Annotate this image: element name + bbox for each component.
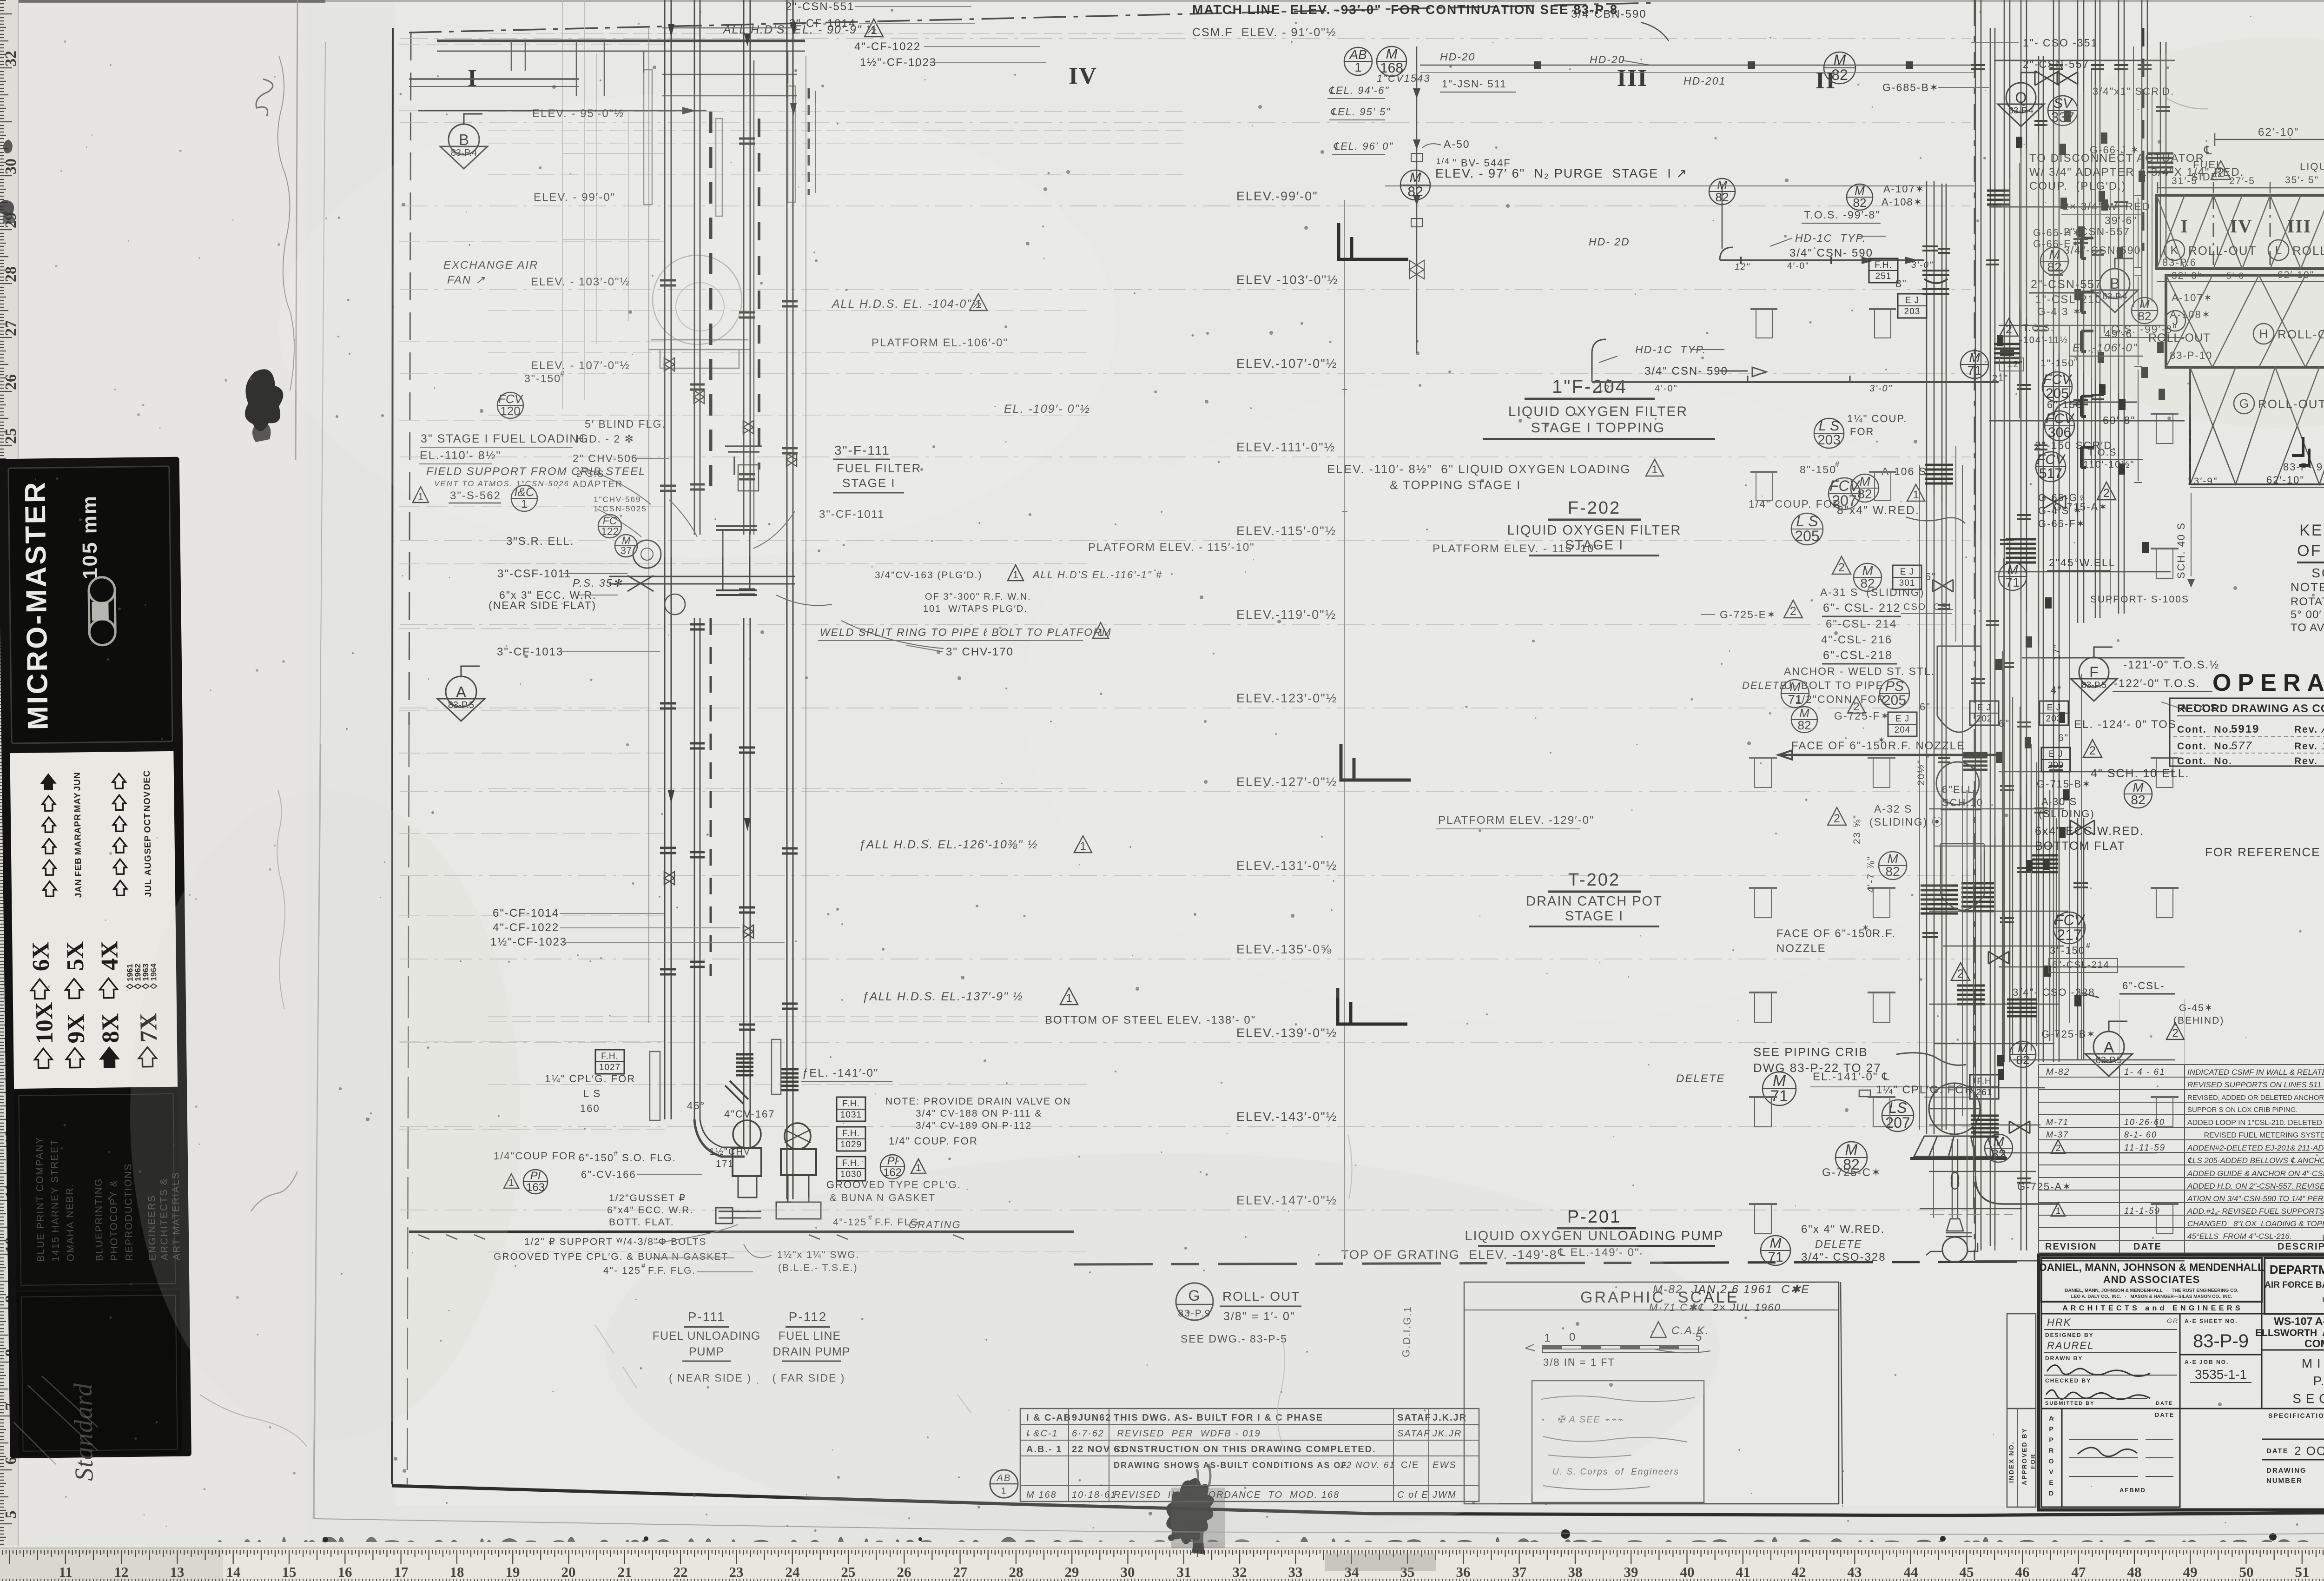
platform bar at 735 — [648, 340, 751, 368]
svg-text:M: M — [1834, 52, 1846, 68]
ej-209 box — [2041, 748, 2070, 772]
svg-text:FOR: FOR — [2029, 1454, 2036, 1469]
svg-text:NOTE:: NOTE: — [2291, 580, 2324, 594]
svg-text:82: 82 — [1716, 190, 1729, 204]
drain catch pot vessel — [1929, 1083, 1980, 1134]
svg-text:ADDED GUIDE & ANCHOR ON 4″-CSL: ADDED GUIDE & ANCHOR ON 4″-CSL-216. ADDE… — [2187, 1169, 2324, 1178]
pipe 1.5"-CF-1023 — [787, 0, 793, 1199]
q ref flag — [2006, 83, 2036, 112]
L roll-out label — [2268, 240, 2289, 260]
svg-text:3/4" CV-189 ON P-112: 3/4" CV-189 ON P-112 — [916, 1120, 1032, 1131]
svg-text:G-685-B✶: G-685-B✶ — [1882, 81, 1939, 93]
m82 ej301 — [1854, 563, 1882, 591]
svg-text:M I S S I L E S I L O: M I S S I L E S I L O — [2302, 1356, 2324, 1370]
K roll-out label — [2164, 240, 2185, 260]
svg-text:2: 2 — [2172, 1027, 2178, 1039]
svg-text:1½"CHV: 1½"CHV — [709, 1147, 751, 1157]
m82 f — [1851, 474, 1879, 502]
svg-text:G-715-B✶: G-715-B✶ — [2037, 778, 2092, 790]
svg-text:1"- CSO -351: 1"- CSO -351 — [2023, 37, 2098, 49]
left dim ticks — [2134, 195, 2142, 483]
svg-text:1: 1 — [2056, 1206, 2061, 1216]
svg-text:E: E — [2049, 1479, 2054, 1486]
svg-text:REVISED SUPPORTS ON LINES 511: REVISED SUPPORTS ON LINES 511 & 590 — [2187, 1080, 2324, 1089]
lower cluster extra density — [1967, 790, 1967, 1250]
svg-text:F.H.: F.H. — [1875, 260, 1892, 270]
svg-text:#: # — [2086, 942, 2091, 950]
fcv 217 circle — [2053, 912, 2085, 944]
45 deg elbow marks — [725, 1081, 748, 1104]
svg-text:30: 30 — [1121, 1564, 1135, 1580]
chart band J H — [2166, 275, 2324, 367]
aux elevation line 104 — [488, 310, 1092, 311]
ej-205 box — [1898, 294, 1927, 318]
svg-text:1415 HARNEY STREET: 1415 HARNEY STREET — [49, 1139, 61, 1262]
svg-text:39: 39 — [1624, 1564, 1638, 1580]
m82 g725f — [1791, 707, 1817, 733]
tri 2 h — [2083, 740, 2102, 757]
svg-text:BOTTOM FLAT: BOTTOM FLAT — [2035, 840, 2126, 853]
svg-text:163: 163 — [526, 1181, 545, 1194]
svg-text:-121′-0" T.O.S.½: -121′-0" T.O.S.½ — [2123, 659, 2219, 671]
elevation line 139 ft — [400, 1042, 1971, 1043]
svg-text:33: 33 — [1288, 1564, 1303, 1580]
tri 2 c — [1848, 696, 1865, 713]
torn film edge band — [296, 0, 297, 460]
svg-text:13: 13 — [170, 1564, 185, 1580]
svg-text:BOTT. FLAT.: BOTT. FLAT. — [609, 1217, 674, 1228]
ej 202 box — [1970, 701, 1999, 725]
project title cell — [2262, 1314, 2324, 1350]
svg-text:DATE: DATE — [2133, 1242, 2162, 1252]
svg-text:9X: 9X — [63, 1014, 90, 1044]
svg-text:15: 15 — [282, 1564, 297, 1580]
svg-text:HD- 2D: HD- 2D — [1589, 236, 1630, 248]
svg-text:REVISION: REVISION — [2045, 1242, 2097, 1252]
ps 205 circle — [1880, 679, 1909, 708]
svg-text:1"-JSN- 511: 1"-JSN- 511 — [1442, 78, 1506, 90]
drawn signature scribble — [2047, 1365, 2150, 1376]
svg-text:4"-CF-1022: 4"-CF-1022 — [493, 921, 559, 934]
svg-text:26: 26 — [2, 374, 20, 390]
svg-text:(SLIDING): (SLIDING) — [2039, 808, 2095, 820]
bottom run to silo wall — [1592, 381, 1999, 383]
svg-text:8-1- 60: 8-1- 60 — [2124, 1130, 2157, 1139]
svg-text:REPRODUCTIONS: REPRODUCTIONS — [123, 1163, 135, 1261]
equipment centerline ticks — [1342, 390, 1347, 511]
svg-text:5X: 5X — [62, 941, 89, 971]
svg-text:25: 25 — [2, 428, 20, 444]
svg-text:Rev.: Rev. — [2294, 741, 2318, 752]
svg-text:REVISED FUEL METERING SYSTEM.: REVISED FUEL METERING SYSTEM. — [2187, 1131, 2324, 1139]
pipe 4"-CF-1022 — [744, 0, 750, 535]
svg-text:82: 82 — [1853, 196, 1867, 210]
m82 circle — [1879, 852, 1907, 880]
svg-text:AUG: AUG — [143, 854, 153, 875]
svg-text:23: 23 — [729, 1564, 744, 1580]
svg-text:OF ROLL- OUTS: OF ROLL- OUTS — [2297, 542, 2324, 560]
svg-text:LS: LS — [1888, 1099, 1907, 1116]
valve bodies right cluster — [2035, 71, 2059, 85]
platform nozzle symbol — [1868, 887, 1895, 889]
I&C circle — [511, 485, 537, 511]
svg-text:SCALE - NONE: SCALE - NONE — [2311, 566, 2324, 580]
fh 261 box — [1970, 1075, 1999, 1099]
svg-text:SUBMITTED BY: SUBMITTED BY — [2045, 1401, 2095, 1406]
svg-text:DATE: DATE — [2156, 1401, 2173, 1406]
svg-text:2"-CSN-557: 2"-CSN-557 — [2023, 58, 2089, 70]
svg-text:44: 44 — [1904, 1564, 1918, 1580]
svg-text:PI: PI — [887, 1155, 898, 1167]
svg-text:8": 8" — [1895, 278, 1907, 290]
revision table — [2039, 1064, 2324, 1065]
svg-text:32: 32 — [1233, 1564, 1247, 1580]
svg-text:29: 29 — [1065, 1564, 1079, 1580]
svg-text:OCT: OCT — [143, 813, 153, 833]
svg-text:1027: 1027 — [599, 1063, 621, 1072]
vessel with dome top — [1937, 646, 1981, 732]
svg-text:8X: 8X — [97, 1013, 124, 1043]
platform nozzle symbol — [1749, 1203, 1777, 1205]
tri 2 top — [2211, 161, 2231, 179]
svg-text:DATE: DATE — [2155, 1411, 2174, 1418]
svg-text:1030: 1030 — [840, 1170, 862, 1179]
chart top dimension 62-10 — [2215, 139, 2324, 140]
svg-text:Aᵣ30 S: Aᵣ30 S — [2041, 796, 2077, 807]
svg-text:3/4" CV-188 ON P-111 &: 3/4" CV-188 ON P-111 & — [916, 1108, 1042, 1119]
ej 204 box — [1888, 712, 1917, 736]
svg-text:1: 1 — [1013, 569, 1018, 581]
svg-text:83-P.5: 83-P.5 — [448, 700, 474, 710]
elevation line 143 ft — [400, 1126, 1971, 1127]
tri 2 g — [2000, 318, 2018, 336]
elevation line 91 ft — [400, 38, 1971, 39]
MICRO-MASTER film test strip — [0, 457, 191, 1482]
dashed hanger right — [808, 88, 810, 195]
left match line vertical dashed — [409, 33, 411, 725]
svg-text:SUPPORT- S-100S: SUPPORT- S-100S — [2090, 594, 2189, 605]
svg-text:FOR REFERENCE DWG′S SEE DWG. 8: FOR REFERENCE DWG′S SEE DWG. 83- P-1 — [2205, 845, 2324, 859]
m82 top circle — [1824, 52, 1855, 84]
platform nozzle symbol — [2151, 887, 2179, 889]
blueprint company panel — [14, 1089, 180, 1290]
svg-text:82: 82 — [1407, 184, 1423, 199]
m82 low — [1985, 1134, 2013, 1162]
elbow runs top right — [2053, 402, 2137, 421]
svg-text:1: 1 — [916, 1163, 921, 1173]
aux elevation line 149 — [488, 1251, 1092, 1252]
elevation line 95 ft — [400, 122, 1971, 123]
svg-text:37: 37 — [1512, 1564, 1527, 1580]
svg-text:M: M — [1770, 1236, 1782, 1251]
sv 337 circle — [2048, 96, 2078, 126]
pipe flanges — [660, 139, 798, 1030]
svg-text:6X: 6X — [27, 941, 54, 971]
svg-text:MATCH LINE ELEV. -93′-0" FOR: MATCH LINE ELEV. -93′-0" FOR CONTINUATIO… — [1192, 2, 1618, 17]
svg-text:E J: E J — [2047, 703, 2061, 713]
svg-text:50: 50 — [2239, 1564, 2254, 1580]
svg-text:E J: E J — [2049, 749, 2063, 759]
svg-text:HRK: HRK — [2047, 1316, 2071, 1328]
svg-text:1/4" COUP. FOR: 1/4" COUP. FOR — [889, 1135, 978, 1147]
svg-text:℄EL. 95′ 5": ℄EL. 95′ 5" — [1330, 106, 1391, 118]
svg-text:3′-0": 3′-0" — [1911, 260, 1934, 270]
svg-text:82: 82 — [2016, 1053, 2030, 1067]
hds116 note — [1008, 565, 1023, 581]
left cells outline above approved zone — [2007, 1314, 2036, 1409]
fcv-517 circle — [2036, 452, 2066, 482]
svg-text:203: 203 — [1904, 307, 1921, 317]
svg-text:3/4"CBN-590: 3/4"CBN-590 — [1571, 8, 1647, 20]
elevation line 99 ft — [400, 205, 1971, 206]
platform nozzle symbol — [1868, 992, 1895, 993]
svg-text:2 OCT 1959: 2 OCT 1959 — [2294, 1444, 2324, 1458]
svg-text:6"-CSL-: 6"-CSL- — [2122, 980, 2165, 992]
svg-text:F.H.: F.H. — [842, 1158, 860, 1168]
approved column — [2041, 1409, 2062, 1507]
pipe 1"-CSL-210 — [2004, 0, 2010, 1062]
tri 2 a — [1832, 556, 1851, 574]
svg-text:577: 577 — [2231, 740, 2252, 752]
fcv 207 circle — [1829, 478, 1860, 509]
svg-text:A-107✶: A-107✶ — [1883, 183, 1925, 195]
signature cells — [2041, 1314, 2180, 1409]
svg-text:17": 17" — [2052, 644, 2062, 660]
support channels lower — [650, 1039, 781, 1120]
svg-text:1031: 1031 — [840, 1110, 862, 1120]
svg-text:21: 21 — [618, 1564, 632, 1580]
fcv-205 circle — [2042, 372, 2072, 402]
svg-text:℄EL. 96′ 0": ℄EL. 96′ 0" — [1333, 140, 1393, 152]
svg-text:6x4" ECC.W.RED.: 6x4" ECC.W.RED. — [2035, 825, 2144, 838]
svg-text:83-P.5: 83-P.5 — [2096, 1055, 2122, 1065]
svg-text:AND ASSOCIATES: AND ASSOCIATES — [2103, 1274, 2200, 1285]
svg-text:P. L S. P I P I N G: P. L S. P I P I N G — [2313, 1374, 2324, 1388]
tri 2 d — [1828, 807, 1846, 825]
L corner mark in band G — [2292, 437, 2309, 465]
elevation line 135 ft — [400, 959, 1971, 959]
svg-text:217: 217 — [2057, 926, 2081, 943]
aux elevation line 90.75 — [488, 33, 1185, 34]
hook marks left of chart — [2081, 238, 2093, 258]
svg-text:MAY: MAY — [73, 792, 83, 813]
svg-text:3/4"CV-163 (PLG′D.): 3/4"CV-163 (PLG′D.) — [875, 570, 982, 581]
svg-text:2: 2 — [2006, 323, 2012, 336]
pipe 6"-CSO-333 — [1990, 28, 1995, 1246]
vertical lines continuation above table — [2038, 999, 2039, 1065]
svg-text:RECORD DRAWING AS CONSTRUCTED: RECORD DRAWING AS CONSTRUCTED — [2177, 702, 2324, 715]
pump suction drop — [1952, 1139, 1958, 1218]
svg-text:3/4" CSN- 590: 3/4" CSN- 590 — [1644, 365, 1728, 377]
svg-text:℄EL. 94′-6": ℄EL. 94′-6" — [1328, 85, 1389, 96]
svg-text:M: M — [1845, 1141, 1858, 1158]
platform nozzle symbol — [1749, 992, 1777, 993]
m82 top far left — [1709, 179, 1735, 205]
svg-text:5: 5 — [2, 1511, 20, 1519]
svg-text:CSM.F ELEV. - 91′-0"½: CSM.F ELEV. - 91′-0"½ — [1192, 26, 1337, 39]
svg-text:3" CHV-170: 3" CHV-170 — [946, 646, 1014, 658]
svg-text:6"-150: 6"-150 — [2047, 399, 2082, 410]
svg-text:3′-0": 3′-0" — [1869, 384, 1893, 394]
svg-text:45: 45 — [1960, 1564, 1974, 1580]
svg-text:FCV: FCV — [2054, 912, 2086, 928]
svg-text:M: M — [1410, 170, 1421, 185]
svg-text:NOTE: PROVIDE DRAIN VALVE ON: NOTE: PROVIDE DRAIN VALVE ON — [885, 1096, 1071, 1107]
svg-text:306: 306 — [2048, 425, 2071, 440]
elevation line 115 ft — [400, 540, 1971, 541]
svg-text:3"-150: 3"-150 — [2050, 945, 2085, 956]
top manifold drops — [511, 41, 788, 96]
record drawing box — [2170, 698, 2324, 766]
platform nozzle symbol — [1749, 1096, 1777, 1098]
svg-text:EL.-141′-0" ℄: EL.-141′-0" ℄ — [1813, 1071, 1890, 1083]
svg-text:60′-8": 60′-8" — [2103, 414, 2136, 426]
svg-text:KEY ELEVATION: KEY ELEVATION — [2299, 522, 2324, 539]
pipe 2"-CSN-557 — [2039, 56, 2043, 1062]
svg-text:Rev.: Rev. — [2294, 724, 2318, 735]
pump leader lines — [651, 1224, 772, 1272]
graphic scale box — [1464, 1282, 1839, 1504]
svg-text:101 W/TAPS PLG′D.: 101 W/TAPS PLG′D. — [923, 604, 1028, 614]
svg-text:20: 20 — [561, 1564, 576, 1580]
svg-text:HD-20: HD-20 — [1590, 53, 1625, 66]
svg-text:38: 38 — [1568, 1564, 1583, 1580]
svg-text:FEB: FEB — [73, 857, 83, 876]
rev tri 2 flag — [2051, 1140, 2065, 1153]
svg-text:31: 31 — [1177, 1564, 1191, 1580]
svg-text:46: 46 — [2015, 1564, 2030, 1580]
svg-text:R: R — [2049, 1447, 2054, 1454]
svg-text:III: III — [1617, 65, 1648, 92]
symbol panel on strip — [10, 751, 178, 1089]
elevation line 111 ft — [400, 456, 1971, 457]
elevation line 131 ft — [400, 875, 1971, 876]
svg-text:ATION ON 3/4″-CSN-590 TO 1/4″: ATION ON 3/4″-CSN-590 TO 1/4″ PER A.D.L.… — [2187, 1194, 2324, 1203]
architects engineers strip — [2041, 1302, 2262, 1314]
svg-text:12": 12" — [1735, 262, 1750, 272]
vessel lower column — [1941, 844, 1984, 910]
svg-text:SCH. 40 S: SCH. 40 S — [2175, 522, 2187, 579]
ls 205 circle — [1791, 513, 1823, 545]
svg-text:CHANGED 8″LOX LOADING & TOP: CHANGED 8″LOX LOADING & TOPPING TO 6″DEL… — [2187, 1219, 2324, 1228]
m71 circle el106 — [1961, 351, 1988, 378]
svg-text:25: 25 — [841, 1564, 856, 1580]
svg-text:FCV: FCV — [2037, 452, 2066, 467]
svg-text:P.S. 35✻: P.S. 35✻ — [573, 577, 623, 589]
svg-text:A-E SHEET NO.: A-E SHEET NO. — [2185, 1318, 2238, 1324]
drawing title cell — [2262, 1350, 2324, 1409]
svg-text:Standard: Standard — [69, 1383, 99, 1481]
m82 g — [1999, 562, 2027, 590]
bottom horizontal ruler — [0, 1548, 2324, 1581]
svg-text:6": 6" — [2058, 733, 2069, 743]
svg-text:HD-20: HD-20 — [1440, 51, 1475, 63]
triangle cak stamp — [1651, 1322, 1666, 1337]
tri 2 e — [1951, 963, 1970, 980]
purge valves — [1409, 153, 1424, 279]
pump P-201 body — [1942, 1237, 1967, 1262]
svg-text:6"-CSL-214: 6"-CSL-214 — [2052, 960, 2110, 970]
svg-text:4" SCH. 10 ELL.: 4" SCH. 10 ELL. — [2091, 767, 2190, 780]
svg-text:71: 71 — [1768, 1250, 1783, 1265]
svg-text:48: 48 — [2127, 1564, 2142, 1580]
svg-text:6"x 4" W.RED.: 6"x 4" W.RED. — [1801, 1223, 1885, 1236]
faint line right — [805, 56, 806, 1069]
svg-text:HD-201: HD-201 — [1684, 75, 1726, 87]
svg-text:62′-10": 62′-10" — [2266, 474, 2304, 486]
equipment centerline F-204 — [1344, 200, 1345, 1255]
sheet bottom outer faint edge — [314, 1519, 2324, 1535]
m82 purge circle — [1400, 170, 1430, 200]
svg-text:82: 82 — [1991, 1147, 2006, 1161]
right cluster heavy dashed line — [2141, 28, 2145, 251]
svg-text:F.H.: F.H. — [842, 1099, 860, 1109]
svg-text:P: P — [2049, 1425, 2054, 1433]
svg-text:TO AVOID CRIB STEEL.: TO AVOID CRIB STEEL. — [2291, 622, 2324, 634]
index no sidebar — [2007, 1409, 2036, 1507]
svg-text:30: 30 — [2, 159, 20, 174]
HD-20 horizontal runs top — [1420, 65, 1974, 66]
pump P-111 P-112 assembly — [694, 1119, 745, 1157]
svg-text:105 mm: 105 mm — [78, 495, 102, 579]
pipe 6"-CSL-218 — [2119, 0, 2124, 614]
svg-text:82: 82 — [1831, 66, 1848, 83]
svg-text:AFBMD: AFBMD — [2119, 1487, 2146, 1494]
svg-text:1/4: 1/4 — [1436, 157, 1450, 165]
svg-text:MAR: MAR — [73, 833, 83, 855]
svg-text:A-E JOB NO.: A-E JOB NO. — [2185, 1359, 2229, 1365]
pipe lower2 — [744, 618, 750, 1121]
svg-text:V: V — [2049, 1468, 2054, 1475]
approval signature lines — [2069, 1439, 2138, 1440]
svg-text:SUPPOR S ON LOX CRIB PIPING.: SUPPOR S ON LOX CRIB PIPING. — [2187, 1106, 2298, 1114]
match corner mark — [1338, 988, 1407, 1024]
svg-text:3/4"- CSO -328: 3/4"- CSO -328 — [2013, 986, 2095, 998]
junction marks — [2078, 226, 2085, 238]
svg-text:ADDED LOOP IN 1″CSL-210. DELET: ADDED LOOP IN 1″CSL-210. DELETED 3/4 CSO… — [2187, 1119, 2324, 1127]
svg-text:A: A — [456, 683, 466, 701]
svg-text:4"- 125: 4"- 125 — [603, 1265, 641, 1276]
pipe inner — [750, 60, 754, 535]
svg-text:SEP: SEP — [143, 835, 153, 854]
svg-text:BLUE PRINT COMPANY: BLUE PRINT COMPANY — [34, 1137, 46, 1262]
pipe 8"-CSL-203 — [1975, 0, 1981, 1250]
svg-text:18: 18 — [450, 1564, 464, 1580]
m82 circle mid low — [1835, 1142, 1867, 1173]
svg-text:47: 47 — [2072, 1564, 2086, 1580]
aux elevation line 96.0 — [488, 143, 1185, 144]
svg-text:G-715-A✶: G-715-A✶ — [2053, 501, 2108, 513]
svg-text:F.H.: F.H. — [842, 1129, 860, 1138]
sheet left border — [392, 28, 393, 1484]
fc 122 circle — [598, 515, 621, 538]
job no cell — [2180, 1355, 2262, 1409]
support frame under vessel — [1914, 1136, 2005, 1157]
submitted signature — [2046, 1390, 2150, 1399]
corps engineers stamp box — [1532, 1381, 1704, 1502]
svg-text:1/2" ₽ SUPPORT ᵂ/4-3/8"Φ BOLTS: 1/2" ₽ SUPPORT ᵂ/4-3/8"Φ BOLTS — [524, 1237, 706, 1247]
csn-590 run line — [1720, 259, 1924, 261]
svg-text:3"-CSF-1011: 3"-CSF-1011 — [497, 568, 571, 580]
svg-text:INGLEWOOD. CALIFORNIA: INGLEWOOD. CALIFORNIA — [2323, 1296, 2324, 1303]
pipe arrows — [668, 24, 674, 37]
dept of air force box — [2265, 1258, 2324, 1314]
platform nozzle symbol — [2151, 1203, 2179, 1205]
svg-text:-122′-0" T.O.S.: -122′-0" T.O.S. — [2114, 677, 2200, 690]
svg-text:OF 3"-300" R.F. W.N.: OF 3"-300" R.F. W.N. — [925, 592, 1031, 602]
dmjm firm box — [2041, 1258, 2262, 1302]
platform nozzle symbol — [2151, 548, 2179, 549]
